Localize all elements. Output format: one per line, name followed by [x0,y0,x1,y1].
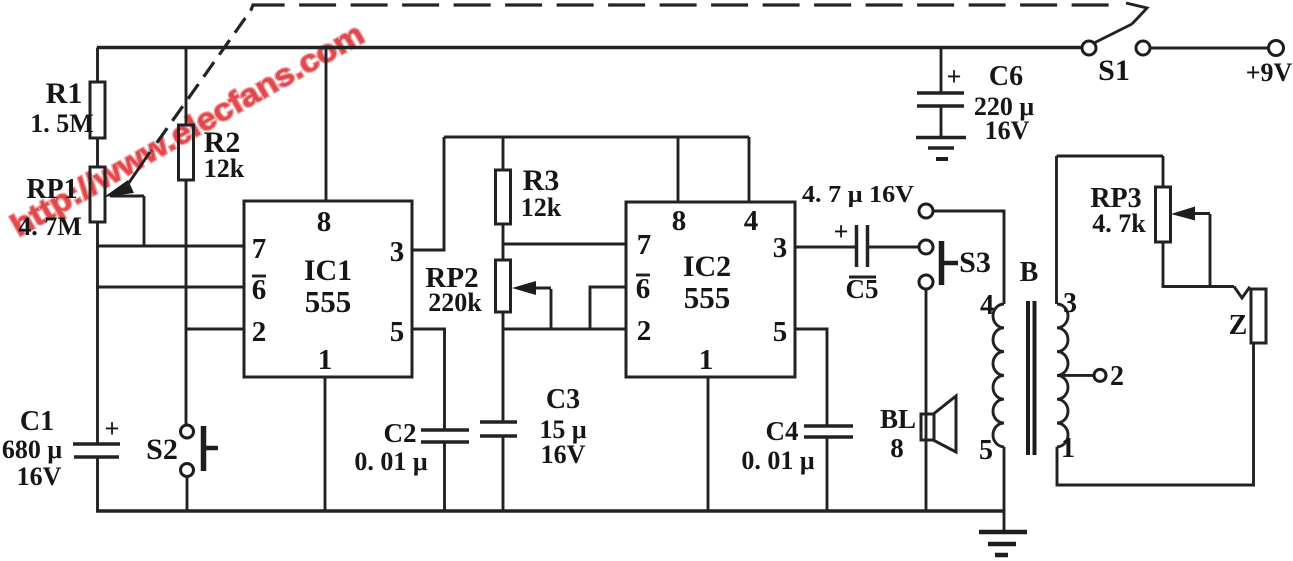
wire IC2 pin5 to C4 [795,329,827,426]
svg-text:6: 6 [636,273,651,305]
svg-text:S2: S2 [146,433,178,466]
wire C2 to bottom rail [443,442,446,511]
wire IC1 pin2 rail [186,328,244,331]
wire S3 bottom to speaker and ground [925,289,928,511]
wire kink to Z [1234,287,1251,299]
wire S3 top to transformer [933,211,1004,304]
wire link rail pin3 to IC2 [444,136,749,139]
svg-text:B: B [1020,257,1039,288]
svg-text:7: 7 [637,229,652,261]
svg-text:5: 5 [390,316,405,348]
capacitor C3 [480,422,517,436]
pin 6 label IC2 [636,273,651,305]
wire IC1 pin6 rail [96,286,244,289]
wire R3 to RP2 [502,224,505,260]
svg-text:12k: 12k [521,193,562,222]
svg-text:RP1: RP1 [26,174,77,205]
svg-text:4: 4 [980,290,994,321]
transformer core [1028,301,1035,455]
svg-text:7: 7 [252,233,267,265]
svg-text:6: 6 [252,274,267,306]
svg-text:4: 4 [744,205,759,237]
mechanical link dashed horizontal [251,5,1122,10]
svg-text:IC2: IC2 [683,250,731,283]
resistor R3 [496,170,511,224]
svg-text:220k: 220k [428,288,482,317]
svg-text:3: 3 [1063,288,1077,319]
wire S2 to bottom rail [186,477,189,512]
capacitor C2 [421,430,469,442]
ground symbol at C6 [916,138,966,160]
ground symbol main [979,532,1027,555]
wire IC1 pin5 to C2 [412,329,445,430]
wire R2 bottom down to S2 [185,180,188,425]
wire C5 to S3 [868,246,919,249]
op-amp timer IC1 box [244,201,412,377]
wire RP3 top rail [1057,155,1164,158]
wire S1 to +9V terminal [1150,47,1269,50]
pushbutton S3 [919,204,958,289]
wire secondary top to RP3 rail [1055,156,1058,304]
svg-text:16V: 16V [17,462,62,491]
svg-text:+: + [947,62,962,91]
mechanical link hook at S1 [1126,3,1147,24]
pin 6 label IC1 [252,274,267,306]
timer IC2 box [626,202,795,377]
capacitor C6 [917,93,964,106]
svg-text:+9V: +9V [1246,58,1293,87]
svg-text:680 μ: 680 μ [2,435,63,464]
svg-text:S3: S3 [959,246,991,279]
svg-text:C1: C1 [20,406,54,437]
terminal +9V [1269,41,1284,56]
potentiometer RP2 [496,260,511,312]
wire Z bottom loop to secondary pin1 [1057,343,1254,485]
capacitor C1 [73,444,120,457]
label C5 [846,274,879,304]
RP1 wiper arrow [104,152,150,197]
svg-text:0. 01 μ: 0. 01 μ [354,447,428,476]
svg-text:C4: C4 [766,416,799,446]
svg-text:1: 1 [1061,433,1075,464]
wire IC2 pin2 rail [503,328,626,331]
svg-text:C2: C2 [384,418,417,448]
svg-text:1. 5M: 1. 5M [30,109,94,138]
svg-text:IC1: IC1 [304,254,352,287]
wire IC2 pin6 jog [590,287,626,329]
svg-text:R1: R1 [46,77,83,110]
pushbutton S2 [181,425,219,477]
wire RP1 bottom down to C1 [96,222,99,444]
svg-text:5: 5 [773,316,788,348]
resistor R1 [90,82,105,138]
wire IC1 pin7 rail [96,245,244,248]
svg-text:2: 2 [637,315,652,347]
speaker BL [921,396,956,452]
wire IC1 pin8 to top rail [325,48,328,202]
svg-text:8: 8 [672,205,687,237]
svg-text:0. 01 μ: 0. 01 μ [741,446,815,475]
wire IC2 pin4 drop [748,137,751,202]
mechanical link dashed diagonal RP1 to S1 [151,10,251,151]
svg-text:2: 2 [1110,361,1124,392]
terminal pin2 [1094,369,1106,381]
wire top +9V supply rail [97,46,1082,50]
wire C6 from top rail [940,48,943,94]
wire RP1 wiper to pin7 rail [143,196,146,246]
wire bottom ground rail [96,509,1004,513]
potentiometer RP1 [90,167,105,222]
transducer Z [1251,289,1266,343]
svg-text:5: 5 [979,435,993,466]
svg-text:4. 7k: 4. 7k [1092,209,1146,238]
wire C6 to ground [940,106,943,136]
svg-text:3: 3 [773,232,788,264]
svg-text:8: 8 [890,433,904,463]
wire R3 top drop [502,137,505,170]
capacitor C5 [857,225,868,267]
wire RP3 wiper down [1209,214,1212,287]
svg-text:BL: BL [880,404,916,434]
svg-text:3: 3 [390,236,405,268]
svg-text:12k: 12k [204,154,245,183]
wire RP3 bottom [1163,242,1234,287]
RP2 wiper arrow [512,281,551,295]
wire IC2 pin8 drop [677,137,680,202]
wire IC1 pin1 to bottom rail [324,377,327,511]
tap wire transformer pin2 [1057,374,1094,377]
svg-text:S1: S1 [1098,54,1130,87]
svg-text:555: 555 [305,284,352,319]
svg-text:8: 8 [317,206,332,238]
svg-text:4. 7M: 4. 7M [18,212,82,241]
wire IC2 pin7 rail [503,243,626,246]
svg-text:1: 1 [699,344,714,376]
wire C4 to bottom rail [826,437,829,511]
svg-text:+: + [105,414,120,443]
wire RP3 stem top [1162,156,1165,187]
wire IC2 pin3 to C5 [795,246,856,249]
svg-text:Z: Z [1229,310,1248,341]
wire RP2 wiper down [550,289,553,329]
transformer B primary winding [993,304,1004,447]
wire primary bottom to ground [1003,447,1006,531]
potentiometer RP3 [1156,187,1171,242]
resistor R2 [179,125,194,180]
svg-text:1: 1 [318,344,333,376]
wire IC1 pin3 out [412,137,444,250]
wire R2 branch top [185,48,188,126]
transformer B secondary winding [1057,304,1068,447]
svg-text:2: 2 [252,316,267,348]
svg-text:16V: 16V [985,116,1030,145]
svg-text:16V: 16V [541,440,586,469]
wire C3 to bottom rail [502,436,505,511]
wire R1 to RP1 [96,138,99,167]
capacitor C4 [804,426,853,437]
svg-text:C3: C3 [546,384,580,415]
svg-text:4. 7 μ 16V: 4. 7 μ 16V [802,182,915,208]
wire RP2 bottom to C3 [502,312,505,422]
switch S1 [1082,24,1150,55]
svg-text:555: 555 [684,280,731,315]
svg-text:C5: C5 [846,274,879,304]
wire IC2 pin1 to bottom rail [707,377,710,511]
svg-text:+: + [834,217,849,246]
RP3 wiper arrow [1171,207,1210,221]
wire left vertical branch upper (to R1) [96,48,99,83]
svg-text:C6: C6 [989,61,1023,92]
wire C1 to bottom rail [96,457,99,511]
